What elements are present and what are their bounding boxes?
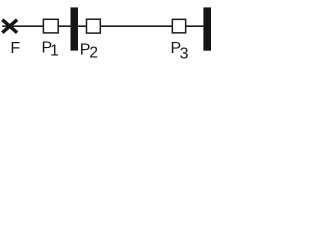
- meter P3: [172, 19, 185, 32]
- svg-text:3: 3: [180, 45, 189, 62]
- meter P1: [43, 19, 58, 33]
- svg-text:2: 2: [89, 45, 98, 62]
- fuse F: [2, 20, 17, 33]
- meter P2: [87, 19, 101, 33]
- busbar 2: [203, 7, 211, 50]
- svg-text:1: 1: [50, 42, 59, 59]
- busbar 1: [71, 7, 79, 50]
- wire: [2, 25, 204, 27]
- svg-text:F: F: [10, 40, 20, 57]
